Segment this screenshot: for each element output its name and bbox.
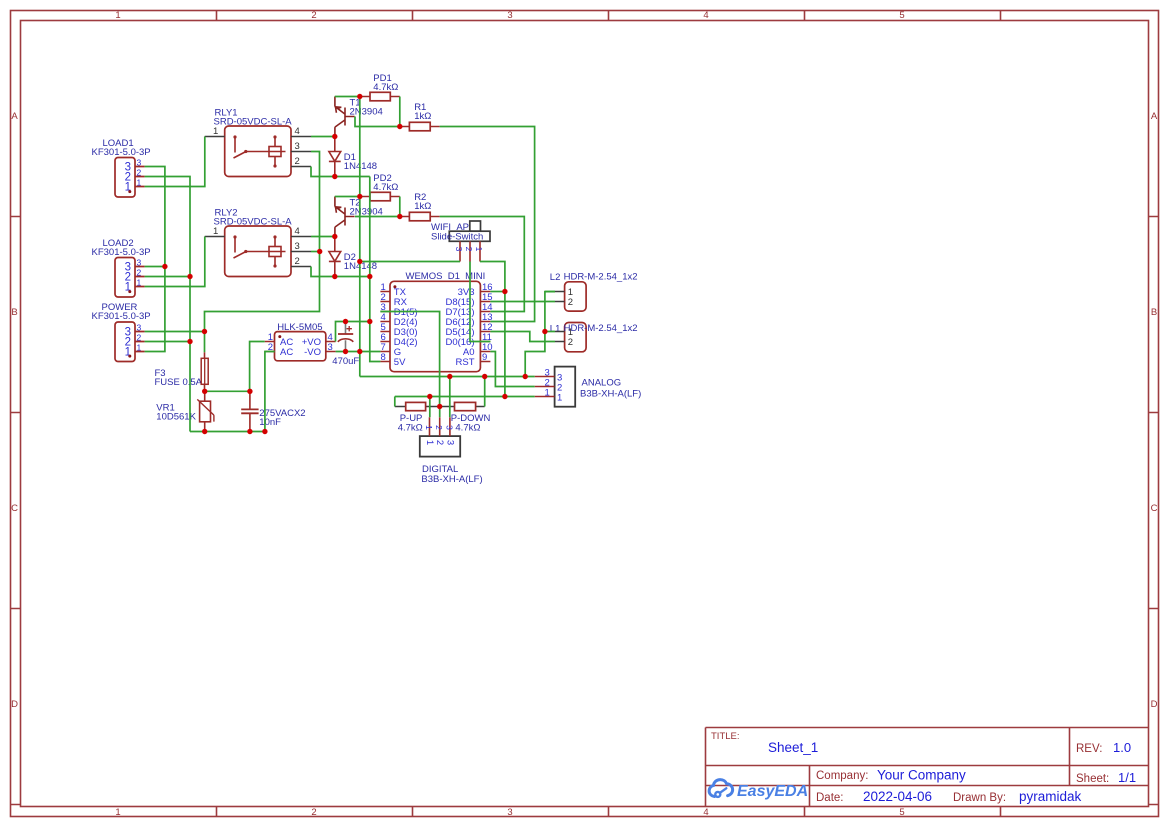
wire LOAD2.3 tap <box>145 266 165 268</box>
junction <box>437 404 442 409</box>
svg-text:RST: RST <box>456 357 475 368</box>
svg-text:3: 3 <box>444 425 454 430</box>
svg-text:5: 5 <box>899 807 904 818</box>
junction <box>357 349 362 354</box>
wire RLY2.4 to T2 collector <box>311 236 335 238</box>
wire RLY2.2 to D2 anode line <box>311 267 370 277</box>
wire P-DOWN right riser <box>484 377 486 407</box>
wire RLY1.3 RLY2.3 to AC live <box>205 152 320 332</box>
wire GND down to lower GND bus <box>359 352 361 377</box>
junction <box>317 249 322 254</box>
svg-text:C: C <box>11 503 18 514</box>
header L1 HDR-M-2.54_1x2 <box>550 323 638 352</box>
svg-text:2: 2 <box>311 10 316 21</box>
wire T2 base <box>355 216 400 218</box>
junction <box>367 274 372 279</box>
svg-text:5V: 5V <box>394 357 406 368</box>
svg-text:4: 4 <box>703 807 708 818</box>
junction <box>397 214 402 219</box>
wire DIGITAL.3 riser <box>449 377 451 418</box>
junction <box>332 134 337 139</box>
svg-text:A: A <box>1151 111 1158 122</box>
wire R2 to D7(13) <box>440 217 525 312</box>
junction <box>343 319 348 324</box>
svg-text:3: 3 <box>137 258 142 268</box>
svg-text:3: 3 <box>444 440 455 445</box>
junction <box>247 389 252 394</box>
transistor T2 <box>335 197 383 237</box>
relay RLY2 <box>205 208 311 277</box>
resistor R1 <box>400 102 440 131</box>
svg-text:B3B-XH-A(LF): B3B-XH-A(LF) <box>580 389 641 400</box>
wire WIFI_AP.1 to 3V3 column <box>480 262 505 397</box>
svg-text:D: D <box>11 699 18 710</box>
svg-text:Company:: Company: <box>816 770 868 782</box>
svg-text:8: 8 <box>381 352 386 363</box>
regulator HLK-5M05 <box>265 322 336 361</box>
frame column numbers top <box>115 10 904 21</box>
header L2 HDR-M-2.54_1x2 <box>550 272 638 312</box>
svg-text:Slide-Switch: Slide-Switch <box>431 232 483 243</box>
wire HLK.1 to cap node <box>250 342 265 392</box>
wire POWER.2 tap <box>145 341 190 343</box>
svg-text:1kΩ: 1kΩ <box>414 201 431 212</box>
svg-text:1: 1 <box>137 343 142 353</box>
svg-text:1kΩ: 1kΩ <box>414 111 431 122</box>
junction <box>202 429 207 434</box>
svg-text:1: 1 <box>545 388 550 399</box>
svg-text:TITLE:: TITLE: <box>711 731 740 742</box>
svg-text:1: 1 <box>137 178 142 188</box>
wire RLY1.2 to D1 anode line <box>311 167 370 177</box>
wire A0 to ANALOG.2 <box>490 352 534 387</box>
wire WIFI_AP.2 to D0(16) <box>470 262 490 342</box>
wire P-UP line to ANALOG.1 <box>395 397 535 407</box>
wire LOAD1.3 to POWER.1 vertical <box>145 167 165 352</box>
diode D1 <box>329 137 377 177</box>
capacitor C1 470uF <box>332 322 359 368</box>
relay RLY1 <box>205 108 311 177</box>
svg-text:1/1: 1/1 <box>1118 770 1136 785</box>
svg-text:1.0: 1.0 <box>1113 740 1131 755</box>
svg-text:-VO: -VO <box>304 347 321 358</box>
wire HLK.4 +VO riser <box>336 322 371 342</box>
switch WIFI_AP Slide-Switch <box>431 221 490 262</box>
svg-text:HDR-M-2.54_1x2: HDR-M-2.54_1x2 <box>564 272 638 283</box>
wire bottom rail to HLK.2 <box>190 352 275 432</box>
svg-text:1: 1 <box>213 226 218 237</box>
svg-text:4: 4 <box>295 126 300 137</box>
svg-text:3: 3 <box>454 247 464 252</box>
svg-text:1: 1 <box>424 440 435 445</box>
wire D1(5) to DIGITAL.2 <box>380 312 439 407</box>
svg-text:2: 2 <box>295 256 300 267</box>
junction <box>523 374 528 379</box>
svg-text:2: 2 <box>568 297 573 308</box>
title block <box>706 728 1149 807</box>
resistor R2 <box>400 192 440 221</box>
frame row letters right <box>1151 111 1158 710</box>
wire RLY1.4 to T1 collector <box>311 136 335 138</box>
svg-text:B: B <box>11 307 17 318</box>
fuse F3 <box>155 352 209 391</box>
transistor T1 <box>335 97 383 137</box>
wire L1.1 tap <box>545 331 555 333</box>
wire T1 base jog <box>355 117 400 127</box>
svg-text:AC: AC <box>280 347 293 358</box>
svg-text:C: C <box>1151 503 1158 514</box>
junction <box>187 339 192 344</box>
svg-text:3: 3 <box>507 807 512 818</box>
wire HLK.3 -VO to WEMOS G <box>336 351 381 353</box>
wire T2 emitter tap <box>335 196 360 198</box>
svg-text:5: 5 <box>899 10 904 21</box>
svg-text:2: 2 <box>137 168 142 178</box>
junction <box>332 174 337 179</box>
svg-text:4: 4 <box>295 226 300 237</box>
junction <box>332 274 337 279</box>
svg-text:2: 2 <box>137 333 142 343</box>
svg-text:2: 2 <box>295 156 300 167</box>
wire lower GND bus to ANALOG.3 <box>360 376 535 378</box>
svg-text:4.7kΩ: 4.7kΩ <box>455 423 480 434</box>
wire D5(14) jog to L1.2 <box>490 332 555 342</box>
svg-text:ANALOG: ANALOG <box>582 378 622 389</box>
wire GND to WIFI_AP.3 <box>360 261 460 263</box>
wire GND jog to L1 L2 column <box>525 292 555 377</box>
wire fuse to cap 10nF top <box>205 390 250 392</box>
diode D2 <box>329 237 377 277</box>
wire DIGITAL.2 riser <box>439 407 441 418</box>
junction <box>482 374 487 379</box>
svg-text:4.7kΩ: 4.7kΩ <box>373 182 398 193</box>
svg-text:1: 1 <box>115 10 120 21</box>
svg-text:KF301-5.0-3P: KF301-5.0-3P <box>92 311 151 322</box>
wire LOAD2.1 to RLY2.1 <box>145 237 205 287</box>
junction <box>397 124 402 129</box>
svg-text:D: D <box>1151 699 1158 710</box>
svg-text:WEMOS_D1_MINI: WEMOS_D1_MINI <box>406 271 486 282</box>
junction <box>187 274 192 279</box>
svg-text:3: 3 <box>507 10 512 21</box>
svg-text:B: B <box>1151 307 1157 318</box>
svg-text:1: 1 <box>474 247 484 252</box>
svg-text:Your Company: Your Company <box>877 768 966 783</box>
svg-text:2: 2 <box>434 425 444 430</box>
resistor PD1 <box>360 73 400 101</box>
svg-text:4.7kΩ: 4.7kΩ <box>398 423 423 434</box>
svg-text:3: 3 <box>137 158 142 168</box>
frame row letters left <box>11 111 18 710</box>
wire PD2 right corner to R2 node <box>399 197 401 217</box>
frame column numbers bottom <box>115 807 904 818</box>
svg-text:2: 2 <box>311 807 316 818</box>
svg-text:1: 1 <box>424 425 434 430</box>
capacitor C 10nF 275VACX2 <box>241 391 305 431</box>
svg-text:3: 3 <box>328 342 333 353</box>
resistor P-DOWN <box>451 402 491 433</box>
wire R1 to D6(12) <box>440 127 535 322</box>
svg-text:B3B-XH-A(LF): B3B-XH-A(LF) <box>421 474 482 485</box>
svg-text:A: A <box>11 111 18 122</box>
svg-text:3: 3 <box>295 141 300 152</box>
wire POWER.3 to fuse F3 <box>145 332 205 353</box>
resistor P-UP <box>395 402 455 433</box>
svg-text:10nF: 10nF <box>259 417 281 428</box>
svg-text:1: 1 <box>213 126 218 137</box>
svg-text:pyramidak: pyramidak <box>1019 789 1082 804</box>
junction <box>447 374 452 379</box>
junction <box>357 94 362 99</box>
connector DIGITAL B3B-XH-A(LF) <box>420 417 483 485</box>
junction <box>357 259 362 264</box>
wire L2.1 corner <box>545 291 555 293</box>
svg-text:470uF: 470uF <box>332 356 359 367</box>
wire T1 emitter to GND spine <box>335 96 360 98</box>
junction dots <box>162 94 547 434</box>
svg-text:4.7kΩ: 4.7kΩ <box>373 82 398 93</box>
varistor VR1 <box>156 391 214 431</box>
junction <box>202 389 207 394</box>
svg-text:2: 2 <box>434 440 445 445</box>
svg-text:2: 2 <box>464 247 474 252</box>
connector ANALOG B3B-XH-A(LF) <box>535 367 642 407</box>
svg-text:EasyEDA: EasyEDA <box>737 783 808 800</box>
svg-text:9: 9 <box>482 352 487 363</box>
wire LOAD1.1 to RLY1.1 <box>145 137 205 187</box>
svg-text:KF301-5.0-3P: KF301-5.0-3P <box>92 147 151 158</box>
svg-text:L2: L2 <box>550 272 561 283</box>
wire LOAD1.2 down to rail <box>145 177 190 432</box>
svg-text:2: 2 <box>137 268 142 278</box>
connector LOAD2 <box>92 238 151 297</box>
EasyEDA logo <box>709 780 808 800</box>
svg-text:Sheet:: Sheet: <box>1076 773 1109 785</box>
svg-text:Drawn By:: Drawn By: <box>953 792 1006 804</box>
svg-text:Date:: Date: <box>816 792 844 804</box>
svg-text:1: 1 <box>137 278 142 288</box>
svg-text:Sheet_1: Sheet_1 <box>768 740 818 755</box>
svg-text:L1: L1 <box>550 324 561 335</box>
svg-text:KF301-5.0-3P: KF301-5.0-3P <box>92 247 151 258</box>
svg-text:HDR-M-2.54_1x2: HDR-M-2.54_1x2 <box>564 323 638 334</box>
junction <box>367 319 372 324</box>
module U1 WEMOS_D1_MINI <box>380 271 492 372</box>
junction <box>162 264 167 269</box>
junction <box>262 429 267 434</box>
wire RLY2.3 tap <box>311 251 320 253</box>
wire D8(15) to L2.2 <box>490 301 555 303</box>
junction <box>502 394 507 399</box>
junction <box>332 234 337 239</box>
wire LOAD2.2 tap <box>145 276 190 278</box>
wire 5V vertical to WEMOS pin8 <box>370 177 381 362</box>
svg-text:3: 3 <box>295 241 300 252</box>
connector LOAD1 <box>92 138 151 197</box>
svg-text:3: 3 <box>137 323 142 333</box>
junction <box>357 194 362 199</box>
junction <box>502 289 507 294</box>
junction <box>542 329 547 334</box>
junction <box>343 349 348 354</box>
svg-text:1: 1 <box>115 807 120 818</box>
wire PD1 right corner to R1 node <box>399 97 401 127</box>
svg-text:4: 4 <box>703 10 708 21</box>
wire 3V3 tap <box>490 291 505 293</box>
svg-text:1: 1 <box>557 393 562 404</box>
wire GND spine vertical <box>359 97 361 352</box>
connector POWER <box>92 302 151 362</box>
wire DIGITAL.1 riser <box>429 397 431 418</box>
svg-text:2022-04-06: 2022-04-06 <box>863 789 932 804</box>
junction <box>427 394 432 399</box>
resistor PD2 <box>360 173 400 201</box>
junction <box>247 429 252 434</box>
junction <box>202 329 207 334</box>
svg-text:2: 2 <box>568 337 573 348</box>
svg-text:FUSE 0.5A: FUSE 0.5A <box>155 377 203 388</box>
svg-text:REV:: REV: <box>1076 743 1102 755</box>
